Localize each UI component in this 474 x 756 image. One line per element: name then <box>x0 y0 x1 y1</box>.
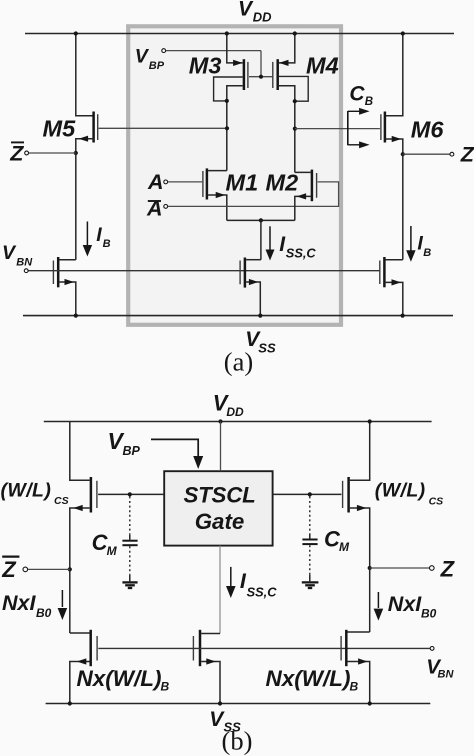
transistor M6 <box>380 114 382 140</box>
VDD rail (a) <box>25 33 454 35</box>
svg-text:SS: SS <box>258 341 276 356</box>
svg-text:Z: Z <box>460 143 474 167</box>
wire VDD to M3 source <box>227 34 243 63</box>
wire VDD to M6 drain <box>385 34 402 116</box>
gate bias line to VBN (b) <box>98 647 430 649</box>
svg-text:Z: Z <box>440 556 456 581</box>
svg-text:(a): (a) <box>224 347 253 377</box>
svg-text:M: M <box>339 540 350 554</box>
svg-text:BP: BP <box>123 444 141 458</box>
STSCL gate block <box>164 471 272 545</box>
svg-text:Nx(W/L): Nx(W/L) <box>77 666 162 691</box>
svg-text:I: I <box>96 224 102 246</box>
ISS,C arrow (a) <box>269 226 271 249</box>
Zbar terminal (b) <box>27 568 69 570</box>
svg-text:M3: M3 <box>189 52 222 78</box>
node n2 junction <box>293 127 297 131</box>
left sink source lead with arrow (b) <box>70 662 90 704</box>
Z node junction (b) <box>368 566 372 570</box>
tail source lead with arrow <box>246 282 260 316</box>
left PMOS (W/L)CS <box>90 477 93 513</box>
svg-text:M6: M6 <box>411 116 445 142</box>
ground symbol right <box>302 581 319 583</box>
svg-text:A: A <box>147 170 164 194</box>
svg-text:Z: Z <box>1 557 17 582</box>
Abar wire around to M2 gate <box>168 182 339 207</box>
svg-text:B0: B0 <box>421 606 437 620</box>
M1 source lead with arrow <box>208 195 227 220</box>
wire Zbar node to left sink drain <box>75 153 77 260</box>
svg-text:CS: CS <box>54 495 69 507</box>
tail sink NMOS (b) <box>201 633 220 635</box>
transistor M3 with source arrow <box>233 60 243 66</box>
wire VDD to M5 drain <box>76 34 94 116</box>
M6 source lead with arrow <box>385 139 402 154</box>
left sink NMOS (b) <box>70 632 90 634</box>
VSS rail (a) <box>23 315 453 317</box>
wire VDD to STSCL block <box>220 422 222 472</box>
input A terminal <box>164 180 168 184</box>
svg-text:M2: M2 <box>266 170 299 196</box>
current sink NMOS left (a) <box>59 259 75 261</box>
M2 drain lead <box>295 171 311 173</box>
svg-text:NxI: NxI <box>2 591 36 615</box>
current sink NMOS right (a) <box>386 259 403 261</box>
svg-text:DD: DD <box>226 405 244 419</box>
tail sink source lead with arrow (b) <box>201 662 220 704</box>
M6 gate wire from node n2 <box>295 128 380 130</box>
node Zbar junction <box>74 151 78 155</box>
svg-text:Z: Z <box>9 141 24 165</box>
Zbar terminal wire <box>29 152 76 154</box>
node n1 junction <box>225 126 229 130</box>
svg-text:V: V <box>135 45 150 67</box>
svg-text:DD: DD <box>253 10 272 25</box>
svg-text:M4: M4 <box>306 52 339 78</box>
input Abar terminal <box>164 205 168 209</box>
svg-text:BN: BN <box>438 669 455 681</box>
tail wire down <box>260 220 262 259</box>
IB arrow left <box>86 222 88 246</box>
Zbar node junction (b) <box>68 567 72 571</box>
svg-text:BP: BP <box>149 60 165 72</box>
M4 drain lead <box>279 86 295 173</box>
svg-text:M1: M1 <box>226 170 259 196</box>
svg-text:(W/L): (W/L) <box>375 480 426 502</box>
gray wire STSCL block to tail sink <box>219 546 221 634</box>
M5 source lead with arrow <box>76 139 94 153</box>
left PMOS drain lead with arrow <box>70 508 90 569</box>
svg-text:Nx(W/L): Nx(W/L) <box>266 666 351 691</box>
svg-text:B: B <box>423 247 431 259</box>
svg-text:B: B <box>350 679 359 693</box>
svg-text:B0: B0 <box>36 606 52 620</box>
transistor M4 with source arrow <box>279 60 289 66</box>
ISS,C arrow (b) <box>230 567 232 586</box>
svg-text:B: B <box>161 679 170 693</box>
wire VDD to left PMOS source <box>70 422 90 481</box>
NxIB0 arrow left <box>61 590 63 607</box>
svg-text:STSCL: STSCL <box>183 483 255 508</box>
VBN bias line <box>28 270 380 272</box>
svg-text:B: B <box>365 96 373 108</box>
svg-text:SS,C: SS,C <box>286 246 317 261</box>
right PMOS drain lead with arrow <box>350 508 370 568</box>
right sink source lead with arrow <box>386 282 403 315</box>
wire VDD to M4 source <box>279 34 295 63</box>
Z terminal (b) <box>370 567 430 569</box>
Z terminal wire <box>403 153 450 155</box>
wire Z to right sink (b) <box>369 568 371 632</box>
wire Z node to right sink drain <box>402 154 404 260</box>
svg-text:C: C <box>349 82 365 105</box>
gate link M3-M4 <box>249 76 272 78</box>
left PMOS gate lead to block <box>98 493 164 495</box>
NxIB0 arrow right <box>377 592 379 608</box>
svg-text:SS,C: SS,C <box>247 584 278 599</box>
right PMOS (W/L)CS <box>347 477 350 513</box>
common source rail <box>227 219 295 221</box>
M3 drain lead <box>227 86 243 171</box>
svg-text:BN: BN <box>16 256 33 268</box>
M3 bulk tie to drain <box>214 77 243 101</box>
VSS rail (b) <box>46 703 431 705</box>
VDD rail (b) <box>44 421 432 423</box>
IB arrow right <box>410 226 412 251</box>
VBP terminal and wire <box>162 49 166 53</box>
M2 source lead with arrow <box>295 196 311 220</box>
transistor M5 <box>92 112 95 143</box>
M5 gate wire to node n1 <box>99 127 227 129</box>
node Z junction <box>401 152 405 156</box>
svg-text:NxI: NxI <box>388 592 422 616</box>
M4 bulk tie to drain <box>279 76 308 101</box>
right sink source lead with arrow (b) <box>347 662 369 704</box>
M1 drain lead <box>208 170 227 172</box>
svg-text:M: M <box>107 544 118 558</box>
highlight box around STSCL core (a) <box>128 26 341 325</box>
capacitor CM left <box>129 496 131 534</box>
svg-text:B: B <box>103 238 111 250</box>
capacitor CM right <box>309 496 311 533</box>
ground symbol left <box>122 581 137 583</box>
svg-text:(W/L): (W/L) <box>1 479 52 501</box>
tail current NMOS (a) <box>246 259 261 261</box>
svg-text:Gate: Gate <box>195 509 245 534</box>
svg-text:V: V <box>2 242 17 264</box>
svg-text:M5: M5 <box>43 116 77 142</box>
wire VDD to right PMOS source <box>350 422 370 481</box>
transistor M2 <box>316 173 318 198</box>
right PMOS gate lead to block <box>273 493 342 495</box>
right sink NMOS (b) <box>347 631 369 633</box>
wire Zbar to left sink (b) <box>69 569 71 633</box>
VBP arrow into block <box>151 439 198 456</box>
capacitor CB moscap symbol <box>347 111 349 145</box>
VBP drop to gates of M3 M4 <box>260 51 262 77</box>
left sink source lead with arrow <box>59 282 75 316</box>
svg-text:CS: CS <box>429 495 444 507</box>
transistor M1 <box>202 171 204 197</box>
svg-text:V: V <box>238 0 254 21</box>
svg-text:(b): (b) <box>222 726 253 756</box>
